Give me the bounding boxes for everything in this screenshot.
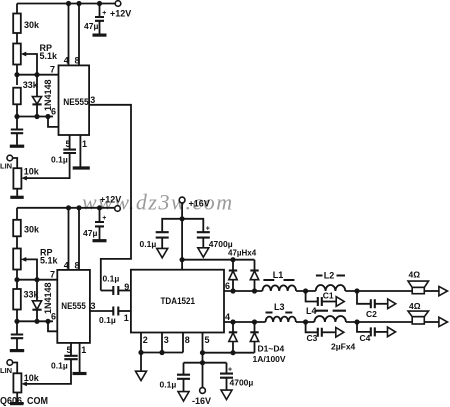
wire bottom cap branch: [184, 362, 227, 364]
svg-text:Q606. COM: Q606. COM: [0, 396, 48, 407]
svg-text:9: 9: [124, 282, 129, 292]
svg-text:TDA1521: TDA1521: [161, 296, 196, 306]
svg-text:4Ω: 4Ω: [409, 270, 421, 280]
pin 4 (block2): [68, 208, 70, 270]
pin 8 TDA: [182, 333, 184, 353]
capacitor 4700u (neg supply): [226, 363, 228, 374]
potentiometer RP 5.1k (block2): [13, 249, 21, 270]
ground (supply 0.1u): [157, 248, 168, 257]
wire: [16, 65, 18, 75]
svg-text:2: 2: [143, 335, 148, 345]
svg-text:+16V: +16V: [189, 199, 210, 209]
wire: [296, 321, 315, 323]
svg-text:8: 8: [75, 56, 80, 66]
svg-text:C3: C3: [307, 333, 318, 343]
diode 1N4148 (block2): [36, 280, 38, 301]
wire left rail (block2): [16, 208, 18, 220]
svg-text:1: 1: [124, 313, 129, 323]
wire: [16, 33, 18, 44]
terminal -16V: [200, 388, 206, 394]
svg-text:LIN: LIN: [0, 162, 12, 171]
node row A / pin7 wire: [17, 74, 59, 76]
wire NE555#2 pin3 to coupling cap: [90, 310, 113, 312]
svg-text:+12V: +12V: [100, 195, 121, 205]
diode D2: [254, 260, 256, 271]
wire: [345, 290, 412, 292]
pin 2: [140, 333, 142, 353]
svg-text:4: 4: [64, 260, 69, 270]
capacitor C2: [357, 291, 370, 304]
svg-text:0.1µ: 0.1µ: [99, 315, 116, 325]
svg-text:10k: 10k: [24, 167, 40, 177]
wire +16V to TDA top: [181, 203, 183, 270]
svg-text:4700µ: 4700µ: [209, 239, 233, 249]
pin 5: [69, 135, 71, 149]
wire pot bottom (block2): [16, 393, 18, 403]
capacitor 0.1u (pin5 block1): [63, 150, 76, 153]
svg-text:C1: C1: [323, 291, 334, 301]
wire +12V rail top: [17, 3, 115, 5]
capacitor 0.1u (pin5 block2): [64, 356, 77, 359]
ground (block1 divider): [10, 145, 24, 148]
svg-text:4: 4: [64, 56, 69, 66]
wire: [424, 290, 439, 292]
pin 3 TDA: [161, 333, 163, 353]
svg-text:5: 5: [66, 139, 71, 149]
capacitor C4: [357, 322, 370, 332]
capacitor (block1 row B to gnd): [16, 117, 18, 130]
wire: [346, 321, 412, 323]
diode D3: [232, 322, 234, 332]
svg-text:47µ: 47µ: [83, 228, 97, 238]
svg-text:3: 3: [90, 95, 95, 105]
node top rail dots: [66, 1, 71, 6]
op-amp U1 NE555: [59, 65, 90, 135]
inductor L3: [266, 317, 296, 322]
ground (supply 4700u): [198, 248, 209, 257]
ground (C4, right-pointing): [388, 327, 396, 337]
svg-text:10k: 10k: [24, 373, 40, 383]
svg-text:L2: L2: [324, 271, 335, 281]
diode D4: [254, 322, 256, 332]
wire bottom diode rail: [203, 352, 255, 354]
capacitor C1: [306, 291, 318, 302]
ground (neg 4700u): [221, 390, 232, 399]
svg-text:4700µ: 4700µ: [230, 378, 254, 388]
resistor 30k (block1): [13, 14, 21, 34]
capacitor (block2 row B to gnd): [16, 321, 18, 334]
svg-text:0.1µ: 0.1µ: [51, 155, 68, 165]
svg-text:NE555: NE555: [61, 301, 86, 312]
resistor 30k (block2): [13, 220, 21, 237]
ground (47u block1): [93, 33, 107, 36]
svg-text:0.1µ: 0.1µ: [140, 239, 157, 249]
svg-text:L4: L4: [306, 306, 317, 316]
capacitor 0.1u (supply): [162, 219, 182, 232]
resistor 33k (block1): [16, 75, 18, 85]
svg-text:0.1µ: 0.1µ: [51, 361, 68, 371]
pin 1 (block2): [79, 343, 81, 372]
capacitor 0.1u coupling (bottom): [113, 307, 118, 316]
svg-text:5: 5: [67, 345, 72, 355]
svg-text:47µ: 47µ: [84, 21, 98, 31]
terminal +16V: [179, 197, 185, 203]
svg-text:30k: 30k: [24, 225, 40, 235]
svg-text:0.1µ: 0.1µ: [103, 274, 120, 284]
wire top diode rail: [182, 259, 254, 261]
svg-text:8: 8: [185, 335, 190, 345]
op-amp U2 NE555: [57, 270, 90, 343]
terminal +12V: [115, 1, 121, 7]
svg-text:+12V: +12V: [110, 9, 131, 19]
capacitor 47u (block2): [99, 208, 101, 222]
ground (10k block2): [10, 402, 24, 405]
svg-text:NE555: NE555: [63, 97, 89, 108]
svg-text:7: 7: [50, 65, 55, 75]
ground (pin1 block2): [73, 372, 87, 375]
node row A / pin7 wire (block2): [17, 279, 57, 281]
wire pin4 output line: [224, 321, 266, 323]
ground (neg 0.1u): [178, 392, 189, 401]
ground (C1, right-pointing): [336, 297, 344, 307]
node row B / pin6 wire: [17, 116, 53, 118]
potentiometer RP 5.1k (block1): [13, 44, 21, 65]
ground (block2 divider): [10, 349, 24, 352]
svg-text:1N4148: 1N4148: [43, 282, 53, 314]
svg-text:L3: L3: [274, 302, 285, 312]
svg-text:1A/100V: 1A/100V: [253, 354, 286, 364]
pin 5 TDA: [202, 333, 204, 388]
node row B / pin6 wire (block2): [17, 320, 53, 322]
wire pin6 output line: [224, 290, 262, 292]
wire pin5 cap to pot wiper (block2): [25, 359, 71, 384]
svg-text:C4: C4: [360, 333, 371, 343]
svg-text:4: 4: [225, 312, 230, 322]
svg-text:1: 1: [81, 345, 86, 355]
terminal +12V (block2): [115, 206, 121, 212]
wire gnd bus pins 2-3-8: [141, 352, 183, 354]
ground (pin1 block1): [73, 166, 90, 169]
svg-text:C2: C2: [366, 309, 377, 319]
svg-text:6: 6: [225, 281, 230, 291]
wire left rail: [16, 4, 18, 14]
ground (47u block2): [93, 239, 107, 242]
terminal LIN (block2): [7, 360, 13, 366]
capacitor 0.1u (neg supply): [183, 363, 185, 375]
potentiometer 10k (block1): [13, 168, 21, 189]
ground (top speaker, right-pointing): [439, 286, 448, 295]
pin 8 (block2): [78, 208, 80, 270]
pin 4: [68, 4, 70, 66]
capacitor 4700u (supply): [182, 219, 203, 232]
resistor 33k (block2): [16, 280, 18, 289]
svg-text:-16V: -16V: [192, 396, 211, 406]
svg-text:5: 5: [205, 335, 210, 345]
svg-text:2µFx4: 2µFx4: [331, 342, 356, 352]
ground (10k block1): [10, 196, 23, 199]
svg-text:4Ω: 4Ω: [409, 301, 421, 311]
svg-text:3: 3: [91, 301, 96, 311]
op-amp U3 TDA1521: [131, 270, 224, 333]
inductor L1: [262, 285, 296, 291]
pin 5 (block2): [70, 343, 72, 356]
svg-text:7: 7: [50, 270, 55, 280]
wire pot bottom: [16, 189, 18, 196]
diode D1: [232, 260, 234, 271]
wire pin5 cap to pot wiper: [25, 153, 70, 178]
wire NE555#1 pin3 to coupling cap: [89, 105, 131, 291]
svg-text:1: 1: [82, 139, 87, 149]
diode 1N4148 (block1): [36, 75, 38, 97]
svg-text:L1: L1: [273, 270, 284, 280]
wire: [296, 290, 316, 292]
svg-text:3: 3: [164, 335, 169, 345]
capacitor C3: [306, 322, 318, 332]
svg-text:5.1k: 5.1k: [40, 51, 59, 61]
pin 8: [78, 4, 80, 66]
svg-text:D1~D4: D1~D4: [258, 344, 285, 354]
wire: [424, 321, 439, 323]
inductor L4: [314, 316, 346, 322]
pin 1: [79, 135, 81, 167]
svg-text:LIN: LIN: [0, 366, 12, 375]
svg-text:+: +: [102, 10, 106, 17]
ground (C3, right-pointing): [336, 328, 344, 338]
capacitor 0.1u coupling (top): [101, 290, 113, 292]
capacitor 47u (block1): [99, 4, 101, 17]
svg-text:0.1µ: 0.1µ: [160, 380, 177, 390]
svg-text:6: 6: [51, 311, 56, 321]
svg-text:30k: 30k: [24, 20, 40, 30]
ground (TDA pin2): [140, 353, 142, 372]
svg-text:6: 6: [51, 107, 56, 117]
ground (C2, right-pointing): [388, 299, 396, 309]
svg-text:5.1k: 5.1k: [40, 256, 59, 266]
wire +12V rail (block2): [17, 207, 115, 209]
potentiometer 10k (block2): [13, 373, 21, 392]
svg-text:8: 8: [75, 260, 80, 270]
ground (bottom speaker, right-pointing): [439, 317, 448, 326]
terminal LIN (block1): [7, 155, 13, 161]
svg-text:47µHx4: 47µHx4: [228, 249, 257, 258]
inductor L2: [316, 285, 346, 291]
